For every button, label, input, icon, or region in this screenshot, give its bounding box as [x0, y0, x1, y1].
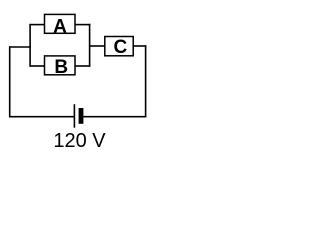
svg-text:B: B	[54, 57, 68, 78]
svg-text:120 V: 120 V	[53, 130, 106, 152]
svg-text:C: C	[114, 37, 128, 58]
svg-text:A: A	[53, 16, 67, 37]
